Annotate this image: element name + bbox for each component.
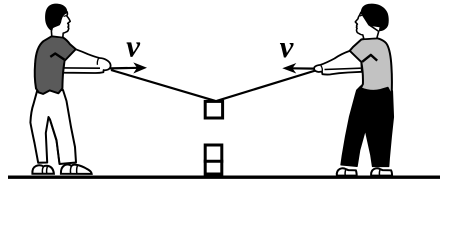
arrow left v [110,62,147,73]
eyebrow [360,15,363,16]
right person [314,4,393,176]
wire rope right segment [217,69,322,101]
left person [30,4,110,174]
arrow right v [282,63,314,74]
hair [45,4,67,31]
elbow chevron [50,54,64,60]
pants inner seam [50,120,60,164]
face [51,12,70,38]
wrist crease [97,58,98,65]
face [355,12,378,39]
arm band white [314,51,362,75]
shoe straps front-left [70,165,77,174]
wrist crease [321,66,322,72]
arm band white [63,49,110,73]
shoe front-right [337,168,357,175]
torso shirt [35,36,76,94]
arm mid line [65,67,101,69]
shoe straps back-left [42,166,47,174]
node hanging square [205,101,222,118]
arm mid line [325,68,361,69]
torso shirt [350,38,392,95]
eyebrow [64,15,67,18]
label v (right) [280,43,294,58]
shoe back-left [32,165,54,173]
pants [341,85,393,167]
shoe front-left [61,165,92,174]
node block mid line [204,160,224,163]
label v (left) [126,42,140,57]
wire rope left segment [111,70,215,101]
shoe straps right [345,169,380,175]
ground [8,175,440,178]
hair [361,4,389,32]
node stacked block [205,145,222,174]
shoe back-right [371,168,392,175]
pants left [30,90,76,165]
elbow chevron [362,55,377,62]
